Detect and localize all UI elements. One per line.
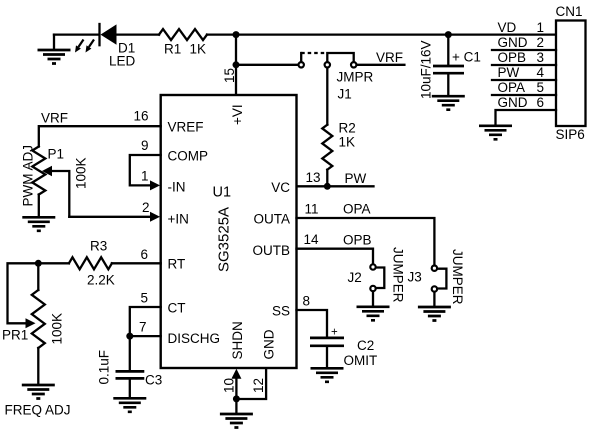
- capacitor C2 OMIT: [310, 327, 377, 369]
- svg-text:1K: 1K: [190, 42, 207, 57]
- svg-text:JUMPER: JUMPER: [450, 249, 465, 305]
- svg-text:PWM ADJ: PWM ADJ: [21, 145, 36, 207]
- svg-text:OUTA: OUTA: [254, 212, 291, 227]
- svg-text:OPA: OPA: [498, 80, 526, 95]
- svg-text:GND: GND: [498, 95, 528, 110]
- node (J1 pin1 branch): [233, 61, 240, 68]
- svg-text:OPA: OPA: [343, 202, 371, 217]
- svg-text:JUMPER: JUMPER: [391, 247, 406, 303]
- svg-text:R3: R3: [90, 239, 107, 254]
- jumper J2: [348, 247, 406, 306]
- svg-text:PW: PW: [345, 171, 367, 186]
- svg-text:6: 6: [537, 95, 545, 110]
- wire CN1 pin 5: [492, 94, 556, 96]
- wire (LED to R1): [117, 33, 160, 35]
- svg-text:8: 8: [303, 294, 311, 309]
- svg-text:0.1uF: 0.1uF: [97, 350, 112, 385]
- svg-text:P1: P1: [48, 147, 65, 162]
- svg-text:13: 13: [306, 170, 321, 185]
- svg-text:5: 5: [140, 291, 148, 306]
- resistor R3 2.2K: [69, 239, 115, 288]
- pin 2 arrowhead (+IN): [150, 212, 160, 222]
- ground (P1): [22, 217, 55, 231]
- svg-text:OPB: OPB: [498, 50, 527, 65]
- wire (J1 pin 3 to VRF stub): [357, 64, 404, 66]
- svg-text:SIP6: SIP6: [556, 127, 585, 142]
- node (rail / +VI branch): [233, 31, 240, 38]
- CN1 pin labels: [498, 20, 545, 110]
- svg-text:OPB: OPB: [343, 233, 372, 248]
- svg-text:3: 3: [537, 50, 545, 65]
- ground (C1): [432, 96, 465, 110]
- svg-text:JMPR: JMPR: [337, 70, 374, 85]
- svg-text:C2: C2: [357, 338, 374, 353]
- svg-text:VRF: VRF: [376, 50, 403, 65]
- wire (J1 pin 2 down to R2): [326, 68, 328, 125]
- svg-text:VRF: VRF: [41, 111, 68, 126]
- svg-text:DISCHG: DISCHG: [168, 331, 221, 346]
- wire CN1 pin 6 to ground: [496, 110, 557, 125]
- svg-text:100K: 100K: [74, 157, 89, 189]
- wire CN1 pin 3: [492, 64, 556, 66]
- svg-text:GND: GND: [498, 35, 528, 50]
- jumper J1 JMPR: [299, 53, 374, 102]
- svg-text:1: 1: [141, 169, 149, 184]
- capacitor C3 0.1uF: [97, 336, 163, 397]
- svg-text:16: 16: [133, 109, 148, 124]
- svg-text:CT: CT: [168, 301, 186, 316]
- wire (node down to PR1): [37, 263, 39, 290]
- wire (SS pin 8 to C2): [297, 310, 328, 337]
- wire CN1 pin 2: [492, 49, 556, 51]
- wire (RT pin 6 left segment): [112, 262, 161, 264]
- svg-text:7: 7: [139, 320, 147, 335]
- svg-text:+ C1: + C1: [452, 50, 481, 65]
- resistor R1 1K: [159, 29, 207, 56]
- jumper J3: [408, 249, 466, 306]
- resistor R2 1K: [322, 121, 355, 170]
- LED D1: [75, 24, 136, 69]
- svg-text:-IN: -IN: [168, 180, 186, 195]
- pin 1 arrowhead (-IN): [150, 180, 160, 190]
- svg-text:SS: SS: [272, 304, 290, 319]
- svg-text:6: 6: [140, 247, 148, 262]
- svg-text:SG3525A: SG3525A: [216, 207, 233, 272]
- wire (OUTA pin 11 to J3): [297, 218, 435, 265]
- svg-text:VC: VC: [271, 180, 290, 195]
- wire (COMP pin 9 to -IN pin 1 loop): [130, 155, 161, 185]
- svg-text:SHDN: SHDN: [230, 321, 245, 359]
- svg-text:RT: RT: [168, 257, 186, 272]
- wire (VRF to VREF pin 16): [39, 126, 161, 146]
- svg-text:PR1: PR1: [2, 328, 28, 343]
- svg-text:PW: PW: [498, 65, 520, 80]
- svg-text:J3: J3: [408, 270, 422, 285]
- svg-text:GND: GND: [261, 329, 276, 359]
- ground (PR1): [22, 385, 55, 399]
- potentiometer PR1 100K: [2, 290, 71, 418]
- svg-text:C3: C3: [145, 373, 162, 388]
- wire (GND pin 12 to node): [236, 369, 266, 400]
- svg-text:2: 2: [537, 35, 545, 50]
- svg-text:2: 2: [142, 200, 150, 215]
- wire (VC pin 13 to PW stub): [297, 185, 374, 187]
- wire (+VI drop from rail): [235, 35, 237, 65]
- svg-text:LED: LED: [109, 54, 136, 69]
- node (DISCHG / C3 junction): [126, 333, 133, 340]
- svg-text:FREQ ADJ: FREQ ADJ: [5, 403, 71, 418]
- svg-text:+IN: +IN: [168, 212, 189, 227]
- capacitor C1 10uF/16V: [419, 35, 481, 99]
- svg-text:+: +: [331, 327, 338, 339]
- ground (J2): [357, 307, 390, 321]
- svg-text:J2: J2: [348, 270, 362, 285]
- ground (C2): [311, 368, 344, 382]
- svg-text:14: 14: [304, 232, 320, 247]
- svg-text:VREF: VREF: [168, 120, 204, 135]
- SHDN arrowhead into IC bottom: [231, 369, 241, 379]
- svg-text:VD: VD: [498, 20, 517, 35]
- svg-text:100K: 100K: [50, 313, 65, 345]
- svg-text:9: 9: [141, 138, 149, 153]
- svg-text:1: 1: [537, 20, 545, 35]
- svg-text:R1: R1: [164, 42, 181, 57]
- op-amp IC U1 SG3525A box: [161, 95, 297, 368]
- wire (P1 wiper to +IN pin 2): [69, 216, 151, 218]
- svg-text:11: 11: [305, 202, 319, 217]
- svg-text:CN1: CN1: [556, 4, 583, 19]
- wire (pin 15 into IC top): [235, 65, 237, 95]
- svg-text:1K: 1K: [339, 135, 356, 150]
- svg-text:2.2K: 2.2K: [87, 273, 115, 288]
- svg-text:COMP: COMP: [168, 149, 209, 164]
- svg-text:10: 10: [222, 378, 237, 393]
- wire (OUTB pin 14 to J2): [297, 249, 374, 264]
- ground (J3): [418, 307, 451, 321]
- svg-text:+VI: +VI: [230, 104, 245, 125]
- svg-text:OMIT: OMIT: [344, 353, 378, 368]
- wire (CT pin 5 to DISCHG pin 7 loop): [130, 307, 161, 336]
- potentiometer P1 100K: [21, 145, 89, 217]
- wire (top rail R1 to CN1 VD): [207, 33, 556, 35]
- svg-text:15: 15: [222, 68, 237, 83]
- svg-text:10uF/16V: 10uF/16V: [419, 40, 434, 99]
- node (VC / R2 junction): [324, 183, 331, 190]
- svg-text:12: 12: [251, 378, 266, 393]
- node (rail / C1 branch): [445, 31, 452, 38]
- svg-text:R2: R2: [339, 121, 356, 136]
- wire (R2 to VC node): [326, 170, 328, 187]
- svg-text:U1: U1: [213, 185, 232, 201]
- ground (LED cathode, top-left): [38, 35, 71, 64]
- svg-text:OUTB: OUTB: [252, 243, 290, 258]
- wire CN1 pin 4: [492, 79, 556, 81]
- ground (IC GND): [220, 414, 253, 428]
- svg-text:J1: J1: [338, 87, 352, 102]
- wire (ground to LED): [54, 33, 99, 35]
- ground (C3): [113, 398, 146, 412]
- wire (node to ground): [235, 399, 237, 413]
- PR1 wiper arrowhead: [26, 318, 36, 328]
- wire (SHDN pin 10 with arrow): [235, 376, 237, 399]
- wire (node to J1 pin 1): [236, 64, 298, 66]
- node (SHDN/GND junction): [233, 395, 240, 402]
- svg-text:4: 4: [537, 65, 545, 80]
- node (R3 / PR1 junction): [35, 260, 42, 267]
- ground (CN1 pin 6): [479, 126, 512, 140]
- connector CN1 SIP6: [556, 4, 586, 142]
- svg-text:5: 5: [537, 80, 545, 95]
- wire (R3 to PR1 top and wiper loop): [8, 263, 69, 323]
